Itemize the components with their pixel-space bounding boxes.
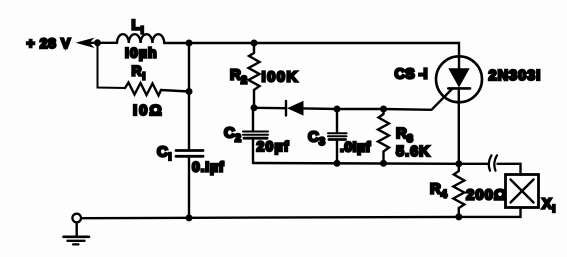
wire supply node to L1: [98, 42, 118, 44]
svg-text:R4: R4: [430, 181, 448, 201]
node C3 bottom: [334, 160, 341, 167]
resistor R1: [125, 83, 161, 96]
inductor L1: [117, 34, 164, 43]
wire R4 node to coupling cap: [459, 163, 488, 165]
node R4 top: [455, 160, 462, 167]
node C1 bottom: [186, 214, 193, 221]
wire diode to C3 node: [304, 107, 338, 110]
node R4 bottom: [455, 213, 462, 220]
lower wire C2 to R4: [253, 162, 459, 165]
node R2 bottom / C2 top: [251, 104, 258, 111]
top rail wire: [189, 43, 459, 57]
svg-text:C3: C3: [308, 128, 325, 148]
svg-text:0.Iµf: 0.Iµf: [192, 159, 224, 175]
node R3 top: [380, 106, 387, 113]
capacitor coupling (curved plates): [489, 155, 497, 170]
svg-text:2N303I: 2N303I: [489, 68, 542, 84]
svg-text:CS -I: CS -I: [395, 67, 428, 83]
node R1 right: [186, 88, 193, 95]
crystal X1: [506, 175, 539, 208]
svg-text:R2: R2: [230, 67, 247, 87]
ground: [64, 214, 90, 245]
wire X1 bottom to rail: [459, 208, 521, 217]
svg-text:XI: XI: [542, 196, 555, 215]
svg-text:5.6K: 5.6K: [396, 144, 431, 160]
svg-text:C2: C2: [224, 125, 241, 145]
capacitor C1: [176, 151, 203, 157]
resistor R2: [249, 43, 260, 108]
node A (supply node): [94, 39, 101, 46]
SCR CS-1 2N3031: [436, 56, 482, 102]
svg-text:+ 28 V: + 28 V: [27, 35, 72, 51]
wire L1 to right node: [164, 42, 189, 44]
wire R2 node to diode: [254, 107, 286, 110]
wire R1 to right node: [161, 90, 189, 92]
svg-text:R3: R3: [396, 125, 413, 145]
wire C1 to bottom rail: [188, 156, 190, 218]
svg-text:I00K: I00K: [262, 68, 299, 85]
wire SCR cathode down to R4 node: [458, 88, 460, 163]
gate wire R3 node to SCR: [384, 89, 453, 110]
wire cap to crystal X1: [498, 164, 521, 175]
capacitor C3: [328, 109, 347, 163]
svg-text:.0Iµf: .0Iµf: [340, 138, 371, 154]
node +28V supply arrow: [76, 38, 98, 48]
svg-text:20µf: 20µf: [257, 138, 290, 154]
capacitor C2: [243, 108, 268, 163]
resistor R4: [453, 164, 464, 217]
node R3 bottom: [380, 160, 387, 167]
wire left vertical to R1: [98, 43, 126, 88]
svg-text:I0Ω: I0Ω: [133, 102, 164, 119]
svg-text:RI: RI: [132, 63, 146, 83]
node R2 top: [251, 40, 258, 47]
svg-text:CI: CI: [157, 143, 172, 163]
wire right vertical down to C1: [188, 43, 190, 150]
resistor R3: [378, 109, 389, 163]
svg-text:200Ω: 200Ω: [466, 187, 507, 204]
diode CR (points left): [286, 101, 304, 116]
node L1/R1 top right: [186, 40, 193, 47]
bottom rail wire: [81, 217, 459, 218]
node C3 top: [334, 106, 341, 113]
svg-text:I0µh: I0µh: [125, 45, 158, 61]
wire C3 node to R3 node: [337, 108, 384, 110]
